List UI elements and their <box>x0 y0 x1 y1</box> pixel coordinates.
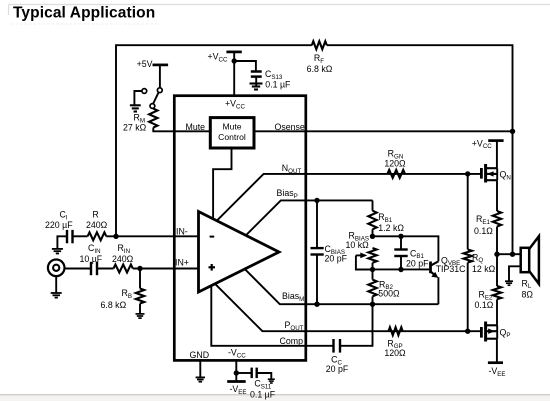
resistor RM <box>149 109 157 128</box>
node: RB2 / BiasM <box>370 302 375 307</box>
bottom page rule <box>0 396 550 401</box>
svg-text:IN+: IN+ <box>175 257 189 267</box>
svg-text:CIN: CIN <box>88 243 101 255</box>
wire BiasP fanout <box>246 200 373 235</box>
wire node to QVBE collector <box>373 236 439 261</box>
capacitor CBIAS <box>316 200 318 248</box>
wire BiasM fanout <box>245 269 439 304</box>
svg-text:6.8 kΩ: 6.8 kΩ <box>101 300 127 310</box>
potentiometer RBIAS <box>368 248 376 263</box>
svg-text:240Ω: 240Ω <box>112 254 134 264</box>
svg-text:RB: RB <box>122 288 133 300</box>
wire node to CS11 <box>236 372 251 374</box>
wire Comp fanout <box>211 286 333 346</box>
capacitor CI <box>66 230 68 243</box>
resistor RF <box>312 41 327 49</box>
resistor RQ <box>464 250 472 263</box>
switch SW contact right <box>157 88 162 93</box>
svg-text:12 kΩ: 12 kΩ <box>472 264 496 274</box>
wire RF to output node <box>327 45 513 131</box>
wire RQ to QP gate line <box>467 263 469 332</box>
ground (speaker) <box>505 280 513 282</box>
svg-text:GND: GND <box>190 350 210 360</box>
op-amp minus input marker <box>210 236 215 238</box>
svg-text:-VCC: -VCC <box>228 348 246 360</box>
node: IN+ / RB <box>137 266 142 271</box>
RCA jack J1 <box>48 260 65 277</box>
wire GND pin <box>199 360 201 377</box>
op-amp IC U1 outline <box>174 96 305 361</box>
svg-text:10 µF: 10 µF <box>80 254 103 264</box>
wire jack shield to ground <box>55 276 57 293</box>
svg-text:1.2 kΩ: 1.2 kΩ <box>378 223 404 233</box>
svg-text:TIP31C: TIP31C <box>436 264 466 274</box>
wire RM to Mute pin <box>153 128 210 132</box>
wire Nout node to RQ <box>467 174 469 250</box>
svg-text:BiasP: BiasP <box>277 188 298 200</box>
+5V supply bar <box>153 64 169 67</box>
wire output node to RE2 <box>496 254 498 286</box>
node: RB1 / CB1 / QVBE collector <box>370 234 375 239</box>
node: CB1 top <box>398 234 403 239</box>
svg-text:POUT: POUT <box>285 320 304 332</box>
ground (jack) <box>51 292 62 294</box>
wire output node to speaker <box>497 253 521 255</box>
resistor RE2 <box>493 286 501 299</box>
mute control block <box>210 118 254 148</box>
resistor RGN <box>387 170 405 178</box>
-Vee supply bar (QP) <box>488 361 503 364</box>
wire RB1 to node <box>372 229 374 236</box>
wire Pout fanout <box>215 284 481 331</box>
svg-text:120Ω: 120Ω <box>384 348 406 358</box>
wire RIN to IN+ <box>133 268 199 270</box>
svg-text:RE1: RE1 <box>476 214 490 226</box>
ground (CS11) <box>268 378 275 380</box>
resistor RE1 <box>493 211 501 227</box>
svg-text:6.8 kΩ: 6.8 kΩ <box>307 64 333 74</box>
node: output / feedback rail <box>510 252 515 257</box>
wire RE2 to QP <box>496 299 498 325</box>
wire -Vcc pin <box>235 360 237 373</box>
wire Nout fanout <box>217 174 482 221</box>
svg-text:20 pF: 20 pF <box>406 259 429 269</box>
transistor QVBE TIP31C <box>429 262 432 274</box>
node: Nout / RQ <box>465 171 470 176</box>
node: BiasP / CBIAS <box>314 198 319 203</box>
wire +5V to switch <box>159 65 161 88</box>
wire RB to ground <box>139 304 141 314</box>
svg-text:20 pF: 20 pF <box>326 364 349 374</box>
wire QN source to RE1 <box>496 180 498 211</box>
svg-text:+VCC: +VCC <box>208 52 228 64</box>
wire mute control to op-amp <box>213 148 231 219</box>
svg-text:0.1 µF: 0.1 µF <box>265 80 291 90</box>
svg-text:0.1 µF: 0.1 µF <box>250 390 276 400</box>
op-amp plus input marker <box>209 266 216 268</box>
svg-text:20 pF: 20 pF <box>325 254 348 264</box>
svg-text:-VEE: -VEE <box>230 384 247 396</box>
wire output rail down <box>512 131 514 254</box>
svg-text:0.1Ω: 0.1Ω <box>475 300 494 310</box>
switch SW contact left <box>142 89 147 94</box>
svg-text:IN-: IN- <box>176 226 188 236</box>
ground (CI) <box>52 248 63 250</box>
-Vee supply bar (bottom) <box>235 373 237 381</box>
node: +Vcc / CS13 junction <box>232 58 237 63</box>
+Vcc supply bar (QN drain) <box>488 139 503 142</box>
node: RBIAS / wiper / CB1 / QVBE base <box>370 267 375 272</box>
ground (RB) <box>136 313 145 315</box>
node: feedback / IN- <box>113 234 118 239</box>
wire CI to R <box>73 235 88 237</box>
svg-text:220 µF: 220 µF <box>45 220 73 230</box>
node: -Vcc / CS11 <box>234 370 239 375</box>
capacitor CC <box>332 339 334 353</box>
resistor RGP <box>389 327 403 335</box>
svg-text:+VCC: +VCC <box>225 99 245 111</box>
wire speaker return <box>509 266 521 281</box>
wire +Vcc into IC <box>233 52 235 96</box>
speaker RL <box>521 248 530 272</box>
node: CBIAS / BiasM <box>314 302 319 307</box>
wire node to RB <box>139 269 141 289</box>
ground (switch) <box>130 104 141 106</box>
faint page border top <box>9 4 550 6</box>
switch pivot contact <box>150 104 155 109</box>
svg-text:500Ω: 500Ω <box>378 289 400 299</box>
node: RQ / Pout / QP gate <box>465 329 470 334</box>
transistor QP (P-ch MOSFET) <box>480 327 483 338</box>
wire QP drain to -Vee <box>496 339 498 363</box>
svg-text:RIN: RIN <box>118 243 131 255</box>
wire R to IN- <box>106 235 198 237</box>
svg-text:10 kΩ: 10 kΩ <box>346 240 370 250</box>
svg-text:27 kΩ: 27 kΩ <box>123 123 147 133</box>
svg-text:Mute: Mute <box>222 122 241 132</box>
wire CS11 to ground <box>257 373 272 379</box>
wire junction to CS13 <box>234 61 256 72</box>
switch blade <box>153 92 158 103</box>
wire left contact to ground <box>134 91 141 106</box>
resistor R <box>88 232 107 240</box>
wire jack to CIN <box>65 268 92 270</box>
ground (CS13) <box>250 82 263 84</box>
wire CIN to RIN <box>97 268 114 270</box>
node: output (RE1/RE2) <box>494 252 499 257</box>
transistor QN (N-ch MOSFET) <box>480 168 483 179</box>
faint dotted rule under title <box>11 23 160 25</box>
svg-text:+5V: +5V <box>137 59 153 69</box>
svg-text:Comp: Comp <box>280 336 304 346</box>
wire CC to BiasM node <box>340 304 373 346</box>
svg-text:240Ω: 240Ω <box>86 220 108 230</box>
svg-text:R: R <box>92 210 98 220</box>
svg-text:120Ω: 120Ω <box>384 158 406 168</box>
+Vcc supply bar (top) <box>226 51 241 54</box>
capacitor CS11 <box>250 368 252 379</box>
op-amp A1 triangle <box>199 212 280 293</box>
wire RBIAS to node <box>372 263 374 270</box>
svg-text:Typical Application: Typical Application <box>13 5 155 22</box>
resistor RB2 <box>368 280 376 297</box>
svg-text:QN: QN <box>500 170 511 182</box>
svg-text:Control: Control <box>218 132 246 142</box>
svg-text:BiasM: BiasM <box>282 291 304 303</box>
capacitor CB1 <box>400 236 402 249</box>
capacitor CS13 <box>251 70 262 73</box>
wire node to QVBE base <box>373 268 430 270</box>
node: CB1 bottom <box>398 267 403 272</box>
svg-text:RQ: RQ <box>472 252 483 264</box>
ground (GND pin) <box>196 376 205 378</box>
wire RE1 to output node <box>496 227 498 255</box>
svg-text:8Ω: 8Ω <box>522 289 534 299</box>
wire feedback top <box>116 45 312 236</box>
wire CI to ground <box>57 236 67 248</box>
wire BiasP to RB1 <box>372 200 374 210</box>
node: Osense / feedback <box>510 129 515 134</box>
svg-text:0.1Ω: 0.1Ω <box>474 226 493 236</box>
capacitor CIN <box>90 262 92 275</box>
svg-text:QP: QP <box>500 327 511 339</box>
resistor RIN <box>114 265 133 273</box>
resistor RB1 <box>368 211 376 230</box>
resistor RB <box>136 289 144 304</box>
wire Osense: mute control to output node <box>254 130 513 132</box>
RBIAS wiper <box>356 255 373 269</box>
svg-text:-VEE: -VEE <box>489 366 506 378</box>
